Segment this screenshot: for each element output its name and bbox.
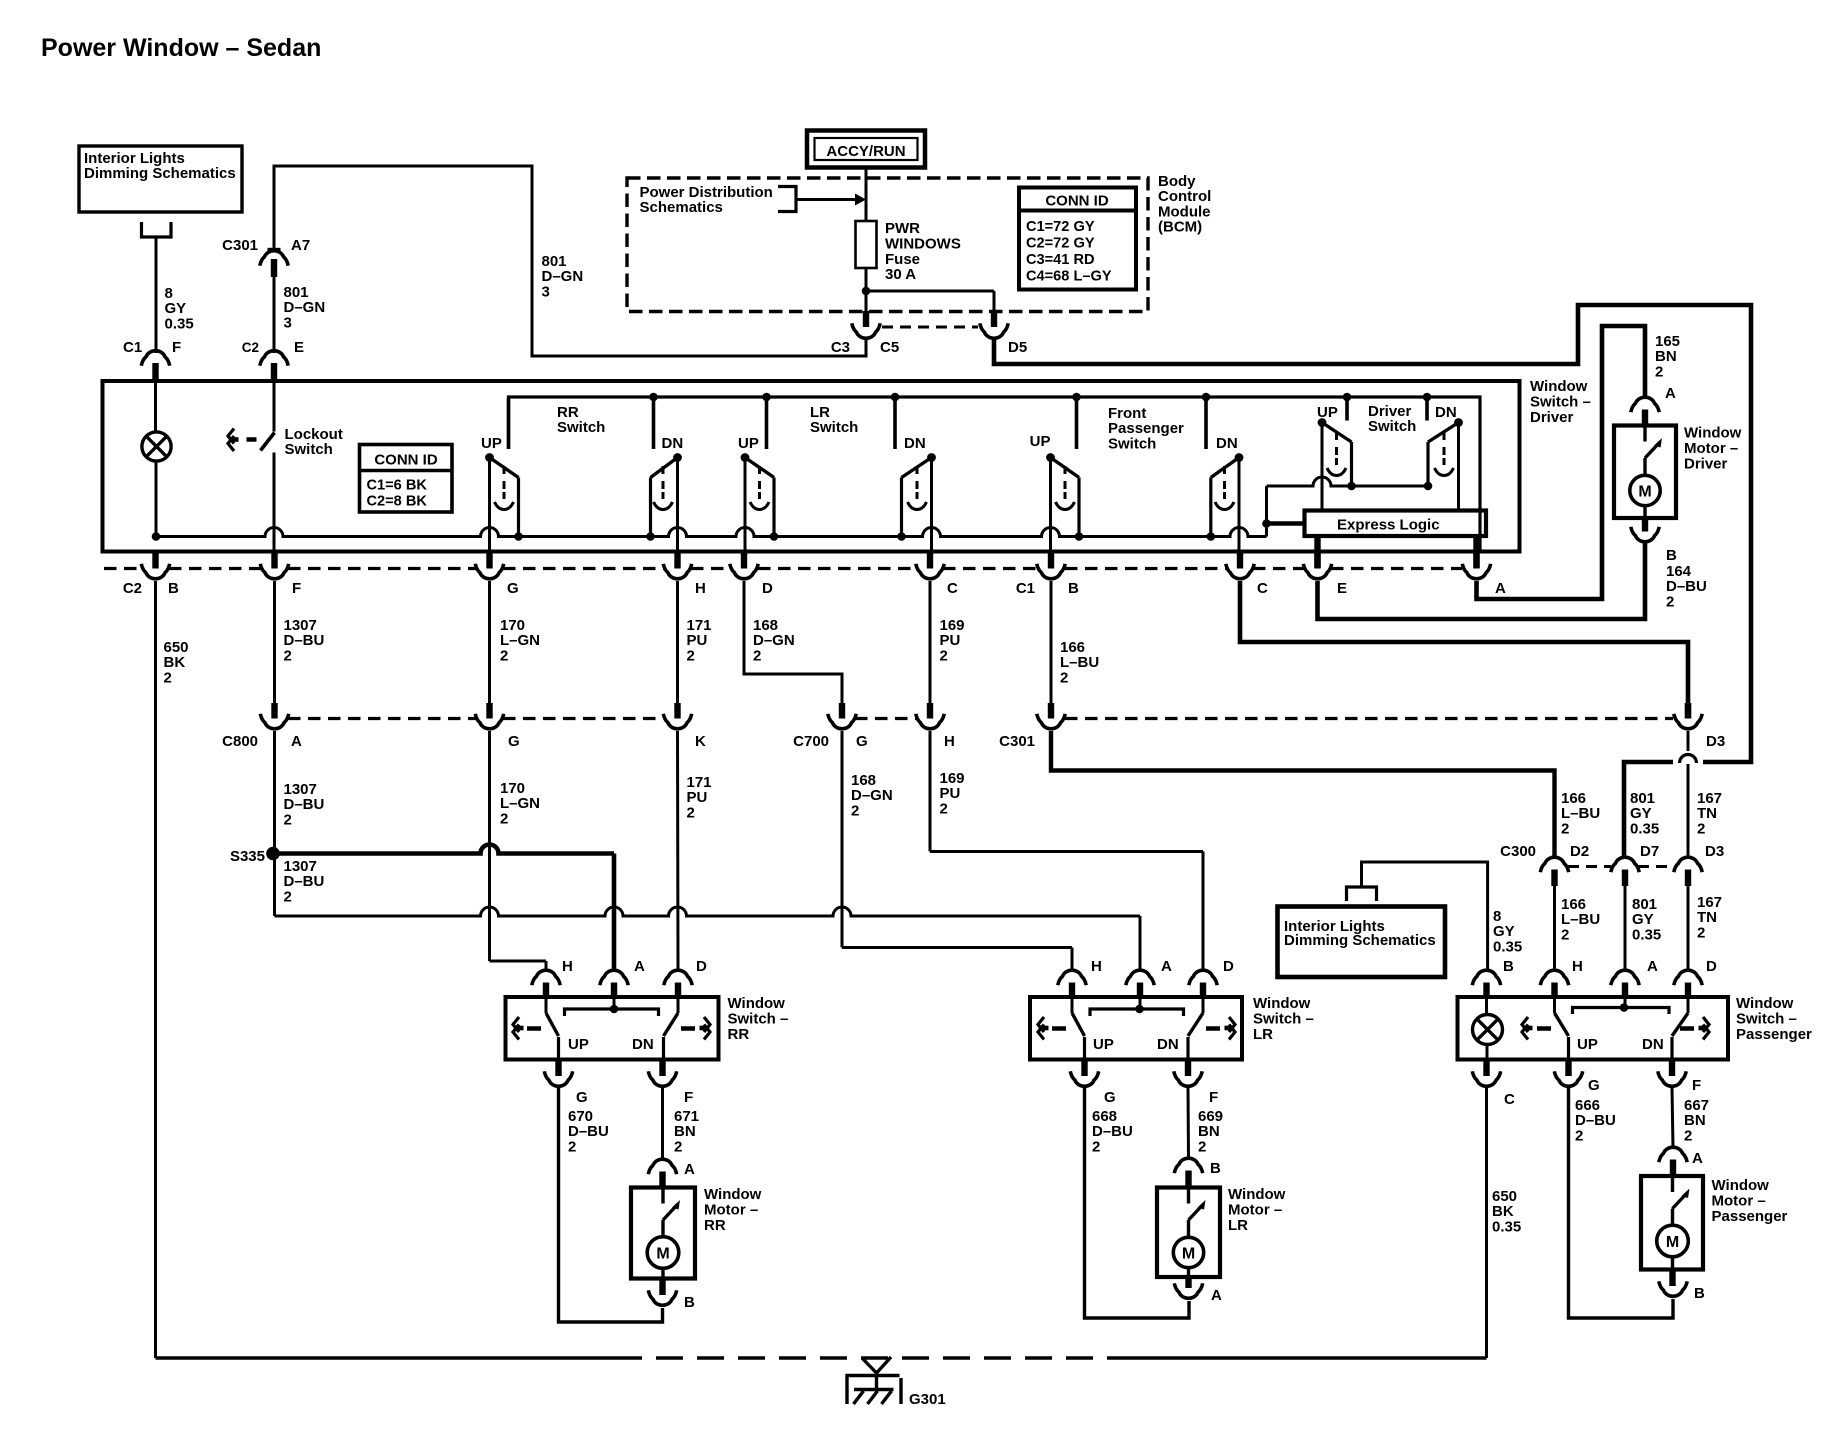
label 1307 D-BU 2 (upper) [284, 617, 325, 664]
LR switch UP contact [1072, 998, 1085, 1060]
wire 168 D-GN (C700 G to LR switch H) [842, 731, 1072, 970]
svg-text:C2: C2 [242, 340, 259, 355]
label 168 D-GN 2 (upper) [753, 617, 795, 664]
label UP (LR) [738, 435, 759, 452]
connector passenger switch pin D [1674, 970, 1702, 998]
switch RR DN [646, 398, 682, 553]
svg-text:Window: Window [1736, 995, 1794, 1012]
label C3 [831, 339, 850, 356]
svg-text:B: B [684, 1294, 695, 1311]
svg-text:C4=68 L–GY: C4=68 L–GY [1026, 269, 1112, 285]
label E (pin) [294, 339, 304, 356]
label DN (RR) [662, 435, 684, 452]
label G (C800) [508, 733, 520, 750]
svg-text:0.35: 0.35 [1630, 820, 1659, 837]
label 164 D-BU 2 [1666, 563, 1707, 610]
svg-text:A7: A7 [291, 237, 310, 254]
svg-text:K: K [695, 733, 706, 750]
svg-text:Switch: Switch [1368, 418, 1416, 435]
label 166 L-BU 2 (upper) [1060, 639, 1099, 686]
label F (pin) [172, 339, 181, 356]
svg-text:3: 3 [542, 283, 550, 300]
dashed connector line C300 [1568, 865, 1674, 868]
label DN (LR box) [1157, 1036, 1179, 1053]
label B (C1) [1068, 580, 1079, 597]
junction dot at fuse output [862, 287, 871, 296]
lamp indicator (passenger) [1473, 998, 1503, 1060]
svg-text:Schematics: Schematics [640, 199, 723, 216]
lockout mech dash [247, 437, 257, 442]
svg-text:LR: LR [1228, 1217, 1248, 1234]
label H (C2) [695, 580, 706, 597]
connector LR motor pin B [1174, 1158, 1202, 1187]
svg-text:C1=72 GY: C1=72 GY [1026, 219, 1095, 235]
label G (C700) [856, 733, 868, 750]
label H (LR) [1091, 958, 1102, 975]
wire 170 L-GN (C800 G to RR switch H) [490, 731, 547, 970]
passenger mech dash right [1680, 1026, 1694, 1031]
svg-text:Window: Window [1712, 1177, 1770, 1194]
connector RR motor pin B [648, 1279, 676, 1306]
label RR Switch [557, 404, 605, 436]
svg-text:C2=8 BK: C2=8 BK [367, 493, 428, 509]
connector C700 pin H [916, 703, 944, 729]
svg-text:Window: Window [1530, 378, 1588, 395]
svg-text:A: A [1495, 580, 1506, 597]
wire Power Distribution to fuse wire [796, 198, 860, 201]
label Window Switch - RR [728, 995, 789, 1043]
box Window Switch - Driver (main) [103, 381, 1520, 552]
splice S335 [266, 847, 280, 861]
label D7 [1640, 843, 1659, 860]
connector LR switch pin H [1058, 970, 1086, 998]
connector C301 A7 (in-line, T-bar + dome + pin) [260, 250, 288, 354]
label 650 BK 2 [164, 639, 189, 686]
svg-text:B: B [1503, 958, 1514, 975]
label A (motor driver) [1665, 385, 1676, 402]
svg-text:Window: Window [1228, 1186, 1286, 1203]
svg-text:DN: DN [662, 435, 684, 452]
connector C800 pin A [260, 703, 288, 729]
motor passenger internals [1657, 1176, 1690, 1268]
label 169 PU 2 (upper) [940, 617, 965, 664]
label PWR WINDOWS Fuse 30 A [885, 220, 961, 283]
label 8 GY 0.35 (passenger) [1493, 908, 1522, 955]
dashed link C5 to D5 [882, 326, 978, 329]
title Power Window - Sedan [41, 34, 321, 62]
label D (passenger) [1706, 958, 1717, 975]
motor LR internals [1173, 1188, 1205, 1280]
svg-text:30 A: 30 A [885, 266, 916, 283]
wire ACCY/RUN to fuse [865, 168, 868, 222]
label K (C800) [695, 733, 706, 750]
wire 668 D-BU (LR G loop) [1085, 1088, 1190, 1319]
svg-text:Switch: Switch [557, 419, 605, 436]
label C5 [880, 339, 899, 356]
switch LR UP [741, 398, 779, 553]
wire 8 GY 0.35 (Interior Lights to C1 F) [155, 239, 158, 354]
bracket above Interior Lights box (right) [1347, 887, 1377, 901]
label Window Motor - LR [1228, 1186, 1286, 1234]
dashed connector line C301 row [1065, 717, 1673, 720]
svg-text:Switch: Switch [285, 441, 333, 458]
connector passenger motor pin A [1659, 1147, 1687, 1176]
connector C1 pin A [1462, 553, 1490, 579]
svg-text:C301: C301 [222, 237, 258, 254]
svg-text:E: E [294, 339, 304, 356]
svg-text:Motor –: Motor – [704, 1202, 758, 1219]
svg-text:Switch –: Switch – [1736, 1011, 1797, 1028]
label 8 GY 0.35 [165, 285, 194, 332]
wire 650 BK 2 (B to ground) [154, 581, 157, 1358]
connector RR switch pin D [664, 970, 692, 998]
label Driver Switch [1368, 403, 1416, 435]
wire 650 BK 0.35 riser (C1 C to D3) [1240, 581, 1688, 703]
svg-text:(BCM): (BCM) [1158, 219, 1202, 236]
connector LR switch pin A [1126, 970, 1154, 998]
express logic feed from common junction [1267, 521, 1305, 525]
svg-text:CONN ID: CONN ID [374, 452, 438, 469]
wire 670 D-BU (RR G loop) [559, 1088, 663, 1323]
connector C2 pin D [730, 553, 758, 579]
wire 1307 below S335 [273, 854, 276, 917]
svg-text:H: H [1091, 958, 1102, 975]
wire 666 D-BU (passenger G loop) [1569, 1088, 1674, 1319]
svg-text:DN: DN [904, 435, 926, 452]
svg-text:C700: C700 [793, 733, 829, 750]
pin E from express logic [1314, 536, 1320, 568]
wire 169 PU (C700 H to LR switch D) [930, 731, 1203, 970]
connector C800 pin K [663, 703, 691, 729]
svg-text:Window: Window [704, 1186, 762, 1203]
connector C301 pin D3 [1674, 703, 1702, 729]
svg-text:H: H [695, 580, 706, 597]
svg-text:Motor –: Motor – [1712, 1193, 1766, 1210]
svg-text:2: 2 [1575, 1127, 1583, 1144]
connector C800 pin G [475, 703, 503, 729]
svg-text:F: F [1209, 1089, 1218, 1106]
svg-text:D7: D7 [1640, 843, 1659, 860]
svg-text:A: A [1647, 958, 1658, 975]
svg-text:2: 2 [1561, 820, 1569, 837]
box Window Motor - LR [1157, 1188, 1220, 1278]
svg-text:B: B [1068, 580, 1079, 597]
connector RR switch pin H [532, 970, 560, 998]
svg-text:Motor –: Motor – [1228, 1202, 1282, 1219]
svg-text:Driver: Driver [1530, 409, 1574, 426]
label F (C2) [292, 580, 301, 597]
svg-text:Switch –: Switch – [1253, 1011, 1314, 1028]
svg-text:2: 2 [1697, 924, 1705, 941]
RR mech arrow right [700, 1017, 711, 1040]
hop of 167 TN wire over 801 rail [1680, 755, 1697, 764]
connector passenger pin C [1472, 1060, 1500, 1087]
wire driver blades common [1267, 477, 1429, 486]
connector C1 pin B [1037, 553, 1065, 579]
label A (LR) [1161, 958, 1172, 975]
svg-text:2: 2 [284, 647, 292, 664]
wire 650 BK 0.35 (passenger C to ground) [1485, 1088, 1488, 1359]
LR mech dash right [1206, 1026, 1220, 1031]
label D3 (C300) [1705, 843, 1724, 860]
connector C301 pin B (right) [1037, 703, 1065, 729]
svg-text:H: H [944, 733, 955, 750]
junction dot lamp to common line [152, 532, 161, 541]
label C800 [222, 733, 258, 750]
label Lockout Switch [285, 426, 343, 458]
svg-text:ACCY/RUN: ACCY/RUN [826, 143, 905, 160]
wire common junction up to driver blades [1265, 486, 1268, 524]
label G (C2) [507, 580, 519, 597]
RR mech arrow left [513, 1017, 524, 1040]
wire into C301 A7 [273, 165, 276, 249]
svg-text:M: M [1666, 1234, 1679, 1251]
label 165 BN 2 [1655, 333, 1680, 380]
wire 8 GY 0.35 (Interior Lights to passenger B) [1362, 862, 1488, 970]
wire lockout from E pin [273, 381, 276, 432]
svg-text:F: F [172, 339, 181, 356]
connector D5 (BCM output) [980, 311, 1008, 341]
label H (passenger) [1572, 958, 1583, 975]
label C301 [222, 237, 258, 254]
box Interior Lights Dimming Schematics (left) [79, 146, 242, 212]
svg-text:Motor –: Motor – [1684, 440, 1738, 457]
svg-text:F: F [292, 580, 301, 597]
RR switch DN contact [664, 998, 679, 1060]
RR mech dash left [527, 1026, 541, 1031]
label 166 L-BU 2 (lower) [1561, 896, 1600, 943]
lockout switch blade [261, 433, 275, 451]
label UP (LR box) [1093, 1036, 1114, 1053]
svg-text:C3=41 RD: C3=41 RD [1026, 252, 1095, 268]
wire 168 D-GN (D to C700 G) [744, 581, 842, 704]
motor RR internals [647, 1188, 680, 1280]
svg-text:C: C [1504, 1091, 1515, 1108]
RR mech dash right [681, 1026, 695, 1031]
dashed connector line C2/C1 row [104, 567, 1462, 570]
svg-text:D: D [1706, 958, 1717, 975]
label DN (passenger box) [1642, 1036, 1664, 1053]
label B (motor driver) [1666, 547, 1677, 564]
connector C2 pin G [475, 553, 503, 579]
label Window Switch - LR [1253, 995, 1314, 1043]
connector passenger motor pin B [1659, 1270, 1687, 1297]
bracket under Interior Lights box [142, 222, 172, 237]
wire 171 PU (H to C800 K) [676, 581, 679, 704]
connector passenger switch pin B [1472, 970, 1500, 998]
RR switch UP contact [546, 998, 559, 1060]
connector C300 pin D3 [1674, 857, 1702, 970]
svg-text:Switch –: Switch – [728, 1011, 789, 1028]
svg-text:2: 2 [1092, 1138, 1100, 1155]
connector passenger switch pin H [1540, 970, 1568, 998]
svg-text:G: G [576, 1089, 588, 1106]
svg-text:UP: UP [1577, 1036, 1598, 1053]
svg-text:UP: UP [568, 1036, 589, 1053]
label H (RR) [562, 958, 573, 975]
svg-text:0.35: 0.35 [1493, 938, 1522, 955]
label C2 (connector) [242, 340, 259, 355]
label G (RR) [576, 1089, 588, 1106]
svg-text:2: 2 [500, 647, 508, 664]
table CONN ID (BCM) [1019, 188, 1136, 290]
label 170 L-GN 2 (upper) [500, 617, 540, 664]
label Front Passenger Switch [1108, 405, 1184, 452]
svg-text:D: D [1223, 958, 1234, 975]
label D (C2) [762, 580, 773, 597]
label 169 PU 2 (lower) [940, 770, 965, 817]
connector RR motor pin A [648, 1159, 676, 1187]
svg-text:2: 2 [284, 888, 292, 905]
label 168 D-GN 2 (lower) [851, 772, 893, 819]
svg-text:F: F [1692, 1077, 1701, 1094]
dashed connector line C800 [288, 717, 663, 720]
label F (RR) [684, 1089, 693, 1106]
wire 166 L-BU (B to C301) [1050, 581, 1053, 704]
svg-text:D: D [696, 958, 707, 975]
wire 169 PU (C to C700 H) [929, 581, 932, 704]
label 668 D-BU 2 [1092, 1108, 1133, 1155]
svg-text:Window: Window [1253, 995, 1311, 1012]
box Interior Lights Dimming Schematics (right) [1278, 907, 1446, 978]
label A (RR motor) [684, 1161, 695, 1178]
svg-text:2: 2 [284, 811, 292, 828]
box Body Control Module (dashed) [627, 178, 1148, 312]
svg-text:C1: C1 [123, 339, 142, 356]
connector LR pin F [1174, 1060, 1202, 1087]
bracket Power Distribution link [778, 187, 796, 212]
connector motor driver pin A [1631, 397, 1659, 426]
svg-text:D3: D3 [1705, 843, 1724, 860]
svg-text:C1: C1 [1016, 580, 1035, 597]
svg-text:G: G [1588, 1077, 1600, 1094]
svg-text:G301: G301 [909, 1391, 946, 1408]
label 170 L-GN 2 (lower) [500, 780, 540, 827]
svg-text:DN: DN [1435, 404, 1457, 421]
common line inside switch box [156, 519, 1271, 536]
svg-text:E: E [1337, 580, 1347, 597]
connector C2 pin C [916, 553, 944, 579]
svg-text:2: 2 [940, 800, 948, 817]
label 167 TN 2 (lower) [1697, 894, 1722, 941]
svg-text:C2: C2 [123, 580, 142, 597]
pin A from express logic [1473, 536, 1479, 568]
connector RR pin G [544, 1060, 572, 1087]
connector passenger pin G [1554, 1060, 1582, 1087]
connector motor driver pin B [1631, 518, 1659, 542]
wire 166 L-BU (C301 to C300 D2) [1051, 731, 1555, 859]
svg-text:G: G [508, 733, 520, 750]
label D3 (C301) [1706, 733, 1725, 750]
svg-text:UP: UP [1030, 433, 1051, 450]
label Window Switch - Driver [1530, 378, 1591, 426]
label 801 GY 0.35 (lower) [1632, 896, 1661, 943]
svg-text:B: B [1666, 547, 1677, 564]
svg-text:2: 2 [1697, 820, 1705, 837]
label 167 TN 2 (upper) [1697, 790, 1722, 837]
svg-text:D3: D3 [1706, 733, 1725, 750]
connector LR pin G [1070, 1060, 1098, 1087]
label DN (Front Passenger) [1216, 435, 1238, 452]
svg-text:C5: C5 [880, 339, 899, 356]
label D (LR) [1223, 958, 1234, 975]
svg-text:DN: DN [1157, 1036, 1179, 1053]
svg-text:2: 2 [851, 802, 859, 819]
box Window Motor - Passenger [1641, 1176, 1703, 1270]
label UP (passenger box) [1577, 1036, 1598, 1053]
label C300 [1500, 843, 1536, 860]
label 171 PU 2 (upper) [687, 617, 712, 664]
LR rocker bracket [1090, 998, 1184, 1016]
label Window Motor - Passenger [1712, 1177, 1788, 1225]
connector RR pin F [648, 1060, 676, 1087]
box Window Motor - RR [631, 1188, 695, 1279]
label G301 [909, 1391, 946, 1408]
svg-text:2: 2 [500, 810, 508, 827]
svg-text:Passenger: Passenger [1736, 1026, 1812, 1043]
label 1307 D-BU 2 (mid) [284, 781, 325, 828]
motor driver internals [1630, 426, 1662, 518]
wire 801 D-GN (D5 to right rail) [994, 305, 1751, 859]
wire 667 BN (passenger F to motor A) [1672, 1088, 1673, 1149]
switch Driver UP [1318, 398, 1356, 511]
wire 1307 D-BU (C800 A to S335) [273, 731, 276, 854]
svg-text:C300: C300 [1500, 843, 1536, 860]
svg-text:Express Logic: Express Logic [1337, 517, 1440, 534]
svg-text:H: H [562, 958, 573, 975]
svg-text:Power Window – Sedan: Power Window – Sedan [41, 34, 321, 62]
svg-text:S335: S335 [230, 848, 265, 865]
svg-text:D5: D5 [1008, 339, 1027, 356]
connector C2 pin F [260, 553, 288, 579]
passenger switch DN contact [1672, 998, 1688, 1060]
label A (C1) [1495, 580, 1506, 597]
svg-text:D: D [762, 580, 773, 597]
passenger switch UP contact [1555, 998, 1569, 1060]
svg-text:A: A [291, 733, 302, 750]
svg-text:CONN ID: CONN ID [1045, 193, 1109, 210]
LR mech arrow right [1225, 1017, 1236, 1040]
svg-text:G: G [507, 580, 519, 597]
label A (C800) [291, 733, 302, 750]
LR mech arrow left [1038, 1017, 1049, 1040]
label C1 (row) [1016, 580, 1035, 597]
connector C300 pin D2 [1540, 857, 1568, 970]
svg-text:DN: DN [1642, 1036, 1664, 1053]
wire 1307 branch to RR switch A (thick) [273, 845, 614, 971]
dashed connector line C700 [855, 717, 916, 720]
svg-text:C2=72 GY: C2=72 GY [1026, 236, 1095, 252]
svg-text:A: A [684, 1161, 695, 1178]
wire 170 L-GN (G to C800 G) [488, 581, 491, 704]
svg-text:B: B [168, 580, 179, 597]
connector upper D3 pin [1685, 703, 1691, 719]
ground bus wire (to G301) [156, 1356, 1487, 1359]
svg-text:C800: C800 [222, 733, 258, 750]
wire 167 TN (C301 D3 to C300 D3) [1687, 731, 1690, 859]
label A7 [291, 237, 310, 254]
svg-text:Dimming Schematics: Dimming Schematics [1284, 932, 1436, 949]
label B (C2) [168, 580, 179, 597]
svg-text:2: 2 [568, 1138, 576, 1155]
label C (passenger) [1504, 1091, 1515, 1108]
label A (RR) [634, 958, 645, 975]
svg-text:2: 2 [1684, 1127, 1692, 1144]
label F (passenger) [1692, 1077, 1701, 1094]
svg-text:Passenger: Passenger [1712, 1208, 1788, 1225]
label S335 [230, 848, 265, 865]
svg-text:3: 3 [284, 314, 292, 331]
